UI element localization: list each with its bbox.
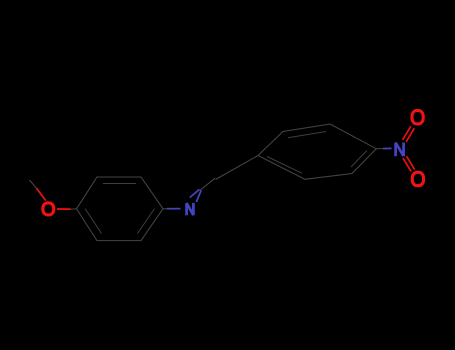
imine N=C double bond line 1 (indigo) (190, 189, 200, 197)
atom N nitro (396, 143, 404, 157)
ring1 inner double bond line, lower-left edge (85, 209, 102, 234)
nitro N=O top double bond line B (406, 128, 414, 142)
bond ring2 to nitro N, indigo half (383, 147, 392, 149)
methyl bond lower red half to O (36, 188, 45, 201)
ring2 inner double bond line, top edge (288, 132, 326, 138)
atom O nitro top (412, 111, 423, 124)
nitro N=O top double bond line A (403, 126, 411, 140)
bond ring1 to N, gray half (163, 208, 167, 210)
ring1 inner double bond line, lower-right edge (138, 209, 155, 234)
nitro N=O bottom double bond line A (403, 158, 411, 171)
bond ring2 to nitro N, gray half (376, 148, 383, 150)
ring1 benzene (4-methoxyphenyl) outline (77, 177, 164, 241)
ring2 inner double bond line, lower-left edge (267, 157, 302, 174)
bond CH to ring2 (216, 156, 259, 180)
ring2 benzene (4-nitrophenyl) outline (258, 124, 376, 179)
nitro N=O bottom double bond line B (407, 156, 415, 169)
ring2 inner double bond line, lower-right edge (351, 151, 367, 168)
imine N=C double bond gray continuation (201, 178, 216, 190)
atom O methoxy (43, 203, 54, 215)
ring1 inner double bond line, top edge (103, 183, 136, 185)
bond O to ring1, red half (57, 208, 71, 210)
atom N imine (187, 203, 194, 215)
bond O to ring1, gray half (71, 208, 77, 210)
methyl C-H3 bond upper gray half (30, 180, 37, 188)
atom O nitro bottom (412, 172, 423, 185)
bond ring1 to N, indigo half (167, 208, 181, 210)
imine N=C double bond line 2 (indigo) (196, 190, 201, 202)
